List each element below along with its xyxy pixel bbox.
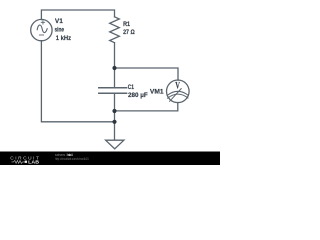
- svg-text:http://circuitlab.com/c/csv4k1: http://circuitlab.com/c/csv4k15: [55, 157, 89, 161]
- svg-text:C1: C1: [128, 84, 134, 91]
- svg-text:LAB: LAB: [28, 160, 39, 165]
- svg-text:280 µF: 280 µF: [128, 92, 148, 99]
- svg-text:27 Ω: 27 Ω: [123, 29, 135, 36]
- svg-text:sine: sine: [55, 27, 65, 34]
- svg-text:V1: V1: [55, 18, 63, 25]
- svg-text:VM1: VM1: [150, 89, 164, 96]
- svg-text:V: V: [175, 80, 180, 90]
- svg-text:R1: R1: [123, 21, 130, 28]
- svg-text:1 kHz: 1 kHz: [56, 35, 72, 42]
